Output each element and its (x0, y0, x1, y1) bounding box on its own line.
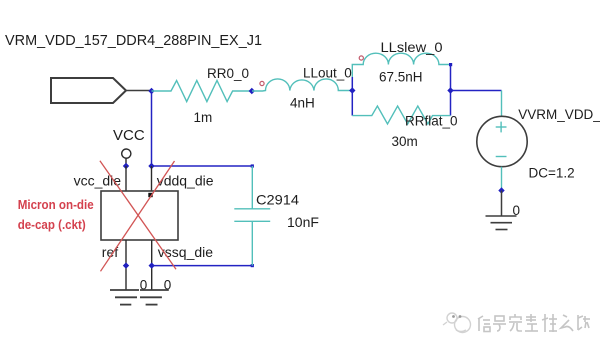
ground symbol at source (486, 216, 517, 230)
watermark logo icon (443, 313, 471, 333)
svg-text:VVRM_VDD_157: VVRM_VDD_157 (518, 107, 600, 122)
glyph 4 (526, 316, 536, 318)
glyph 6 (563, 315, 567, 317)
wire left vertical of parallel branch (top) (351, 77, 353, 91)
node junction at vcc_die pin (123, 163, 129, 169)
glyph 2 (495, 316, 504, 321)
node junction at port / RR0_0 (148, 88, 154, 94)
wire from port node down to vddq_die (151, 91, 153, 166)
svg-text:LLout_0: LLout_0 (303, 66, 352, 81)
pin 1 marker of LLslew_0 (359, 56, 363, 60)
node junction at ref pin (123, 262, 129, 268)
node junction right of parallel branch (447, 87, 453, 93)
voltage source VVRM_VDD body (477, 116, 527, 166)
svg-text:10nF: 10nF (287, 214, 319, 230)
corner dot at capacitor top (251, 164, 254, 167)
capacitor C2914 (234, 166, 270, 266)
svg-text:0: 0 (513, 203, 521, 218)
svg-text:0: 0 (164, 278, 172, 293)
wire from parallel branch to source VVRM (451, 90, 502, 92)
node junction at vddq_die pin (148, 163, 154, 169)
wire right vertical of parallel branch (top) (450, 65, 452, 91)
pin 1 marker of LLout_0 (260, 81, 264, 85)
svg-text:de-cap (.ckt): de-cap (.ckt) (18, 217, 86, 232)
voltage source VVRM_VDD lead bottom (501, 167, 503, 191)
wire vssq_die to capacitor C2914 bottom (152, 265, 253, 267)
voltage source VVRM_VDD lead top (501, 91, 503, 117)
ground symbol under vssq_die (140, 290, 169, 305)
node junction between RR0_0 and LLout_0 (249, 88, 255, 94)
glyph 1 (478, 318, 480, 331)
pin vssq_die of die model (151, 240, 153, 290)
svg-text:LLslew_0: LLslew_0 (381, 40, 443, 55)
node junction at vssq_die pin (149, 262, 155, 268)
corner dot top-right of parallel branch (449, 63, 452, 66)
port connector J1 symbol (51, 78, 152, 103)
pin ref of die model (125, 240, 127, 290)
svg-text:VRM_VDD_157_DDR4_288PIN_EX_J1: VRM_VDD_157_DDR4_288PIN_EX_J1 (5, 32, 262, 49)
svg-text:vssq_die: vssq_die (158, 244, 213, 260)
wire left vertical of parallel branch (bottom) (351, 91, 353, 116)
ground symbol under ref (110, 290, 139, 305)
node junction left of parallel branch (349, 87, 355, 93)
svg-text:67.5nH: 67.5nH (379, 70, 423, 85)
svg-text:Micron on-die: Micron on-die (18, 197, 94, 212)
red cross-out X over die model (100, 161, 176, 271)
wire vddq_die to capacitor C2914 top (152, 165, 253, 167)
svg-text:VCC: VCC (113, 127, 145, 144)
power symbol VCC (122, 149, 131, 166)
svg-text:1m: 1m (194, 110, 213, 125)
svg-text:C2914: C2914 (256, 192, 299, 208)
glyph 7 (577, 315, 579, 330)
inductor LLout_0 (252, 79, 352, 91)
pin 1 marker of die model (148, 193, 152, 197)
pin vcc_die of die model (125, 166, 127, 191)
inductor LLslew_0 (352, 53, 450, 77)
node junction below source (498, 187, 504, 193)
glyph 3 (514, 314, 516, 317)
corner dot at capacitor bottom (251, 264, 254, 267)
svg-text:RRflat_0: RRflat_0 (405, 114, 458, 129)
watermark icon eyes (452, 315, 461, 318)
watermark text (CJK glyph strokes) (478, 314, 590, 332)
svg-text:30m: 30m (392, 134, 418, 149)
glyph 5 (544, 314, 546, 332)
wire right vertical of parallel branch (bottom) (450, 91, 452, 116)
svg-text:4nH: 4nH (290, 96, 315, 111)
wire source to ground (501, 191, 503, 217)
svg-text:DC=1.2: DC=1.2 (529, 166, 575, 181)
resistor RRflat_0 (352, 106, 450, 124)
pin vddq_die of die model (151, 166, 153, 191)
svg-text:RR0_0: RR0_0 (207, 66, 249, 81)
resistor RR0_0 (152, 81, 252, 102)
die model box U1 (Micron on-die de-cap) (101, 191, 178, 240)
